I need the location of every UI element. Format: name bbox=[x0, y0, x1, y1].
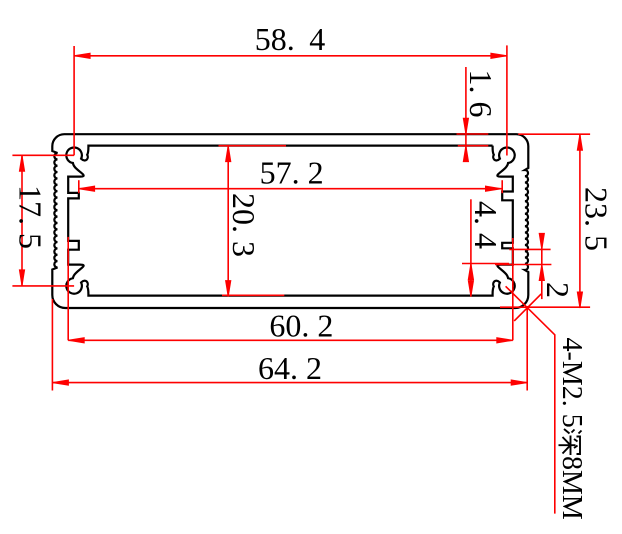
svg-text:64. 2: 64. 2 bbox=[258, 350, 322, 386]
svg-text:57. 2: 57. 2 bbox=[260, 154, 324, 190]
svg-text:23. 5: 23. 5 bbox=[579, 187, 615, 251]
svg-text:2: 2 bbox=[540, 282, 576, 298]
svg-text:8MM: 8MM bbox=[556, 456, 587, 520]
svg-text:1. 6: 1. 6 bbox=[463, 70, 499, 118]
svg-text:17. 5: 17. 5 bbox=[13, 185, 49, 249]
svg-text:60. 2: 60. 2 bbox=[269, 308, 333, 344]
svg-text:4. 4: 4. 4 bbox=[468, 201, 504, 249]
svg-text:20. 3: 20. 3 bbox=[226, 193, 262, 257]
svg-text:4-M2. 5: 4-M2. 5 bbox=[556, 338, 587, 428]
svg-text:58. 4: 58. 4 bbox=[255, 21, 325, 57]
